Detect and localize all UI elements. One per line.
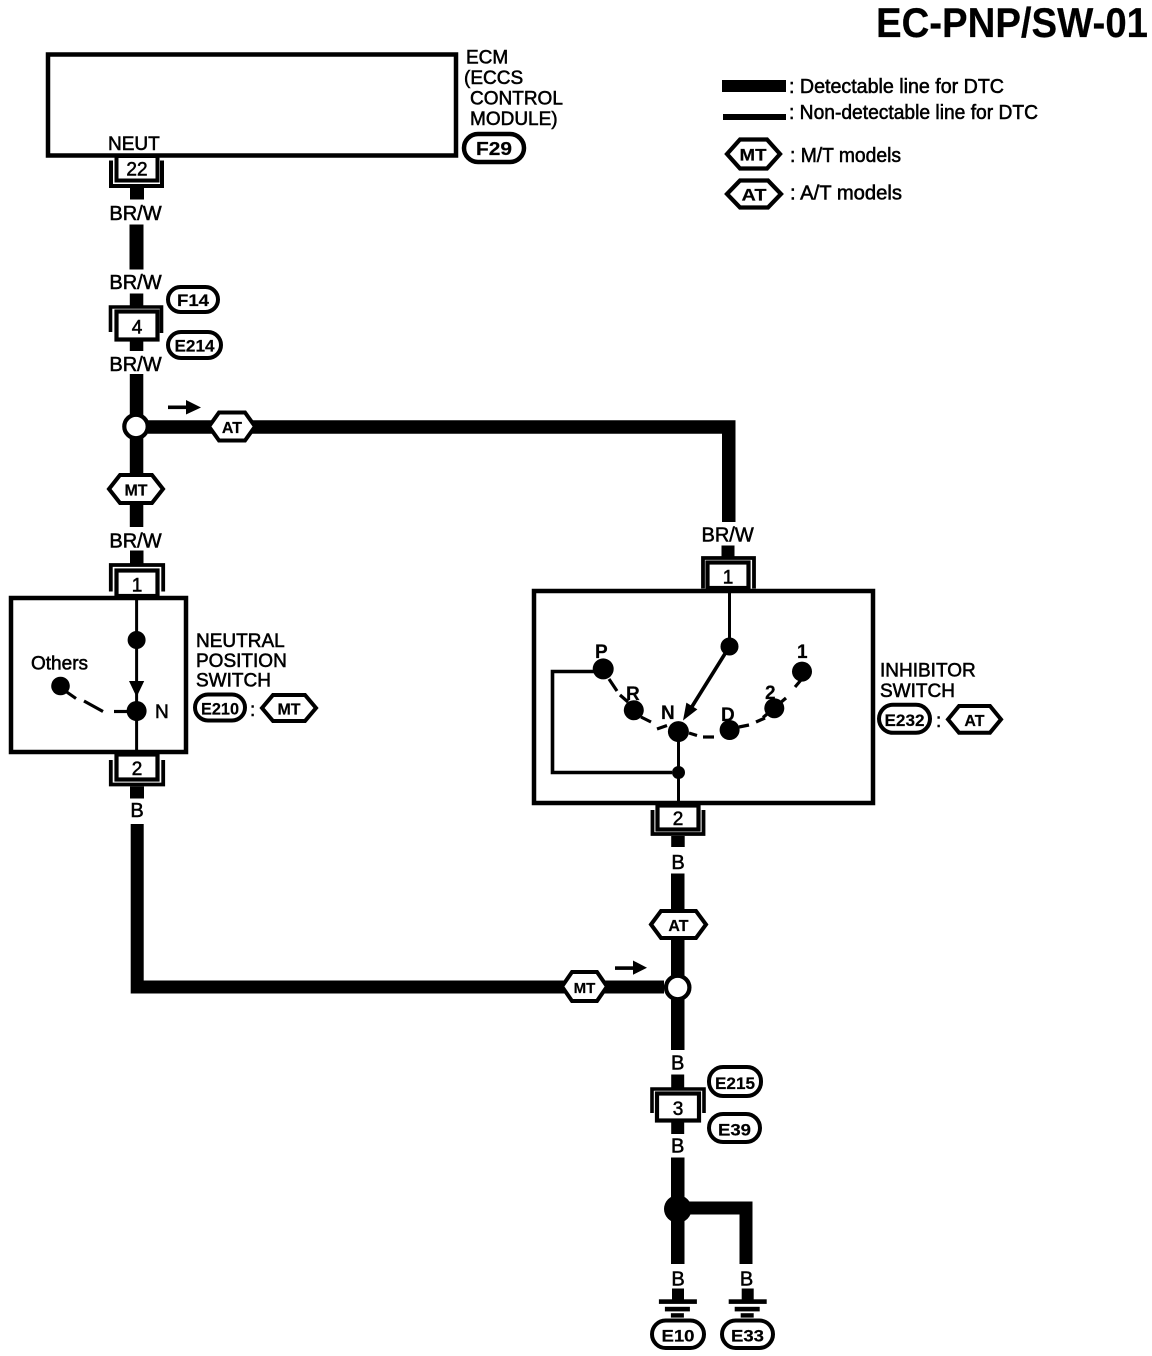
- connector code E214: [168, 332, 221, 358]
- svg-text:E232: E232: [885, 711, 925, 730]
- N right tick: [689, 733, 697, 736]
- svg-text:: M/T models: : M/T models: [790, 145, 901, 167]
- svg-text:1: 1: [723, 568, 734, 589]
- pin label NEUT: [108, 134, 160, 155]
- label 1: [797, 642, 808, 663]
- svg-text:Others: Others: [31, 654, 88, 675]
- inhibitor pivot dot: [721, 638, 739, 656]
- svg-text:B: B: [740, 1269, 753, 1291]
- svg-text:N: N: [661, 703, 675, 724]
- svg-text:BR/W: BR/W: [701, 525, 753, 547]
- wire stub below terminal 22: [130, 188, 144, 200]
- wire label BR/W: [109, 531, 161, 553]
- legend non-detectable line label: [789, 102, 1038, 124]
- svg-text:BR/W: BR/W: [109, 531, 161, 553]
- svg-text:AT: AT: [742, 186, 768, 205]
- wire label B: [671, 1053, 684, 1075]
- wire stub below inhibitor terminal 2: [671, 836, 685, 847]
- contact N dot: [668, 721, 689, 742]
- wire segment to node A: [130, 374, 144, 416]
- label N: [661, 703, 675, 724]
- svg-text:NEUT: NEUT: [108, 134, 160, 155]
- wire stub above connector 3: [671, 1075, 684, 1089]
- ground symbol E33: [729, 1289, 767, 1318]
- svg-text:D: D: [721, 705, 735, 726]
- MT tag on M/T branch: [109, 475, 163, 503]
- svg-text:SWITCH: SWITCH: [196, 671, 271, 692]
- terminal 2 of inhibitor switch: [653, 806, 704, 835]
- contact D tail: [739, 725, 749, 727]
- contact P tail: [609, 679, 617, 691]
- connector code E232: [879, 705, 930, 733]
- wire label B: [130, 800, 143, 822]
- connector code E215: [709, 1067, 761, 1096]
- wire label B right: [740, 1269, 753, 1291]
- node B open junction circle: [666, 976, 689, 999]
- svg-text:AT: AT: [668, 918, 688, 935]
- wire segment BR/W: [130, 225, 144, 270]
- wire label BR/W: [109, 354, 161, 376]
- svg-text:: Non-detectable line for DTC: : Non-detectable line for DTC: [789, 102, 1038, 124]
- svg-text:F29: F29: [476, 139, 512, 159]
- wire below MT tag: [130, 503, 144, 527]
- ECM label: [464, 48, 563, 131]
- svg-text:MODULE): MODULE): [470, 109, 558, 130]
- contact 1 tail: [795, 680, 801, 687]
- label 2: [765, 683, 776, 704]
- wire branch to E33 ground: [684, 1208, 746, 1264]
- svg-text:1: 1: [132, 576, 143, 597]
- svg-text:1: 1: [797, 642, 808, 663]
- svg-text:(ECCS: (ECCS: [464, 68, 523, 89]
- flow arrow right lower: [615, 961, 647, 975]
- svg-text:EC-PNP/SW-01: EC-PNP/SW-01: [876, 0, 1148, 46]
- svg-text:AT: AT: [222, 420, 242, 437]
- contact P dot: [593, 658, 614, 679]
- legend detectable line sample: [722, 80, 786, 92]
- AT tag on A/T branch: [651, 911, 706, 938]
- svg-text:B: B: [130, 800, 143, 822]
- N left tick: [657, 726, 667, 730]
- neutral switch label: [196, 631, 287, 692]
- wire label B left: [671, 1269, 684, 1291]
- inhibitor wiper arm with arrowhead: [683, 647, 730, 721]
- wire below node A: [130, 438, 144, 476]
- svg-text:E39: E39: [718, 1121, 751, 1140]
- connector code E33: [722, 1321, 773, 1349]
- wire stub below connector 4: [130, 340, 144, 352]
- wire label B: [671, 1136, 684, 1158]
- label R: [626, 684, 640, 705]
- Others contact dot: [51, 677, 70, 696]
- P return path: [553, 672, 673, 773]
- connector code F29: [464, 134, 524, 162]
- svg-text:POSITION: POSITION: [196, 651, 287, 672]
- MT tag on lower branch: [562, 972, 607, 1001]
- svg-text:MT: MT: [277, 702, 300, 719]
- wire label BR/W at inhibitor: [701, 525, 753, 547]
- legend AT label: [790, 183, 902, 205]
- wire AT branch horizontal and vertical drop: [148, 427, 729, 522]
- AT branch tag: [209, 413, 255, 441]
- AT tag for E232: [948, 706, 1001, 733]
- connector code E210: [195, 695, 245, 721]
- contact 1 dot: [792, 662, 812, 682]
- wire segment above AT tag: [671, 874, 685, 912]
- dash N-D: [703, 735, 714, 738]
- svg-text:B: B: [671, 1136, 684, 1158]
- wire stub below connector 3: [671, 1121, 684, 1135]
- svg-text:4: 4: [132, 318, 143, 339]
- svg-text:MT: MT: [740, 146, 768, 165]
- junction small dot: [672, 766, 685, 779]
- contact 2 dot: [764, 698, 784, 718]
- wire stub above inhibitor terminal 1: [722, 546, 735, 560]
- svg-text:NEUTRAL: NEUTRAL: [196, 631, 285, 652]
- svg-text:B: B: [671, 852, 684, 874]
- svg-text::: :: [936, 711, 941, 732]
- svg-text:BR/W: BR/W: [109, 203, 161, 225]
- neutral position switch box: [11, 598, 186, 752]
- svg-text:INHIBITOR: INHIBITOR: [880, 661, 976, 682]
- terminal 1 of neutral position switch: [111, 565, 163, 597]
- legend AT tag symbol: [727, 181, 781, 208]
- svg-text:: A/T models: : A/T models: [790, 183, 902, 205]
- terminal 2 of neutral position switch: [111, 755, 163, 785]
- svg-text:E10: E10: [662, 1327, 695, 1346]
- svg-text::: :: [250, 700, 255, 721]
- svg-text:22: 22: [126, 160, 147, 181]
- svg-text:MT: MT: [574, 980, 596, 997]
- dashed wiper arc: [66, 692, 127, 712]
- neutral switch N contact dot: [127, 701, 147, 721]
- contact R dot: [624, 700, 644, 720]
- svg-text:B: B: [671, 1053, 684, 1075]
- wire down to ground junction: [671, 1158, 685, 1265]
- svg-text:MT: MT: [124, 483, 147, 500]
- svg-text:AT: AT: [964, 713, 984, 730]
- connector code E10: [652, 1321, 704, 1349]
- label Others: [31, 654, 88, 675]
- neutral switch arrowhead down: [129, 681, 144, 697]
- svg-text:SWITCH: SWITCH: [880, 681, 955, 702]
- connector code E39: [709, 1114, 760, 1142]
- svg-text:3: 3: [673, 1099, 684, 1120]
- svg-text:B: B: [671, 1269, 684, 1291]
- svg-text:2: 2: [673, 809, 684, 830]
- wire label B: [671, 852, 684, 874]
- svg-text:: Detectable line for DTC: : Detectable line for DTC: [789, 76, 1004, 98]
- label N: [155, 702, 169, 723]
- wire below node B: [671, 1000, 685, 1051]
- legend MT tag symbol: [727, 140, 780, 169]
- svg-text:N: N: [155, 702, 169, 723]
- wire from N contact to terminal 2: [677, 731, 680, 805]
- title EC-PNP/SW-01: [876, 0, 1148, 46]
- flow arrow right: [168, 400, 201, 415]
- inline connector terminal 4: [111, 307, 162, 340]
- wire M/T branch down and right to node B: [137, 824, 664, 987]
- svg-text:BR/W: BR/W: [109, 354, 161, 376]
- neutral switch internal wire: [135, 596, 138, 753]
- wire stub below terminal 2: [130, 787, 144, 799]
- svg-text:F14: F14: [177, 291, 210, 310]
- contact 2 through tick: [763, 698, 786, 718]
- terminal 22 of ECM: [111, 156, 162, 186]
- svg-text:R: R: [626, 684, 640, 705]
- svg-text:CONTROL: CONTROL: [470, 89, 563, 110]
- terminal 1 of inhibitor switch: [703, 558, 754, 589]
- svg-text:ECM: ECM: [466, 48, 508, 69]
- svg-text:2: 2: [765, 683, 776, 704]
- colon separator: [250, 700, 255, 721]
- svg-text:E33: E33: [731, 1327, 764, 1346]
- inhibitor switch label: [880, 661, 976, 703]
- svg-text:2: 2: [132, 759, 143, 780]
- contact D dot: [720, 720, 740, 740]
- wire stub above connector 4: [130, 294, 144, 308]
- connector code F14: [168, 287, 218, 312]
- dash D-2: [756, 718, 765, 722]
- ground junction dot: [664, 1195, 692, 1223]
- legend MT label: [790, 145, 901, 167]
- wire label BR/W: [109, 272, 161, 294]
- legend detectable line label: [789, 76, 1004, 98]
- node A open junction circle: [124, 415, 147, 438]
- label D: [721, 705, 735, 726]
- legend non-detectable line sample: [723, 114, 786, 120]
- wire label BR/W: [109, 203, 161, 225]
- MT tag for E210: [262, 695, 316, 721]
- wire segment below AT tag: [671, 938, 685, 976]
- dash P-R: [620, 695, 628, 702]
- label P: [595, 642, 608, 663]
- inline connector terminal 3: [652, 1089, 704, 1121]
- colon separator: [936, 711, 941, 732]
- ground symbol E10: [659, 1289, 697, 1318]
- svg-text:E214: E214: [175, 337, 216, 356]
- svg-text:E215: E215: [715, 1074, 755, 1093]
- ECM (ECCS control module) box: [48, 55, 456, 156]
- svg-text:E210: E210: [201, 700, 239, 719]
- inhibitor switch box: [534, 591, 873, 803]
- neutral switch common contact dot: [128, 631, 146, 649]
- inhibitor internal feed wire: [728, 589, 731, 646]
- svg-text:P: P: [595, 642, 608, 663]
- wire stub above neutral switch terminal 1: [130, 551, 144, 566]
- contact R tail: [641, 717, 651, 722]
- svg-text:BR/W: BR/W: [109, 272, 161, 294]
